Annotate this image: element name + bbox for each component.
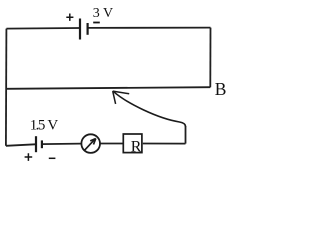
- svg-text:R: R: [131, 138, 142, 155]
- svg-text:1.5V: 1.5V: [30, 117, 59, 133]
- svg-text:B: B: [215, 79, 227, 99]
- svg-text:3 V: 3 V: [93, 6, 113, 21]
